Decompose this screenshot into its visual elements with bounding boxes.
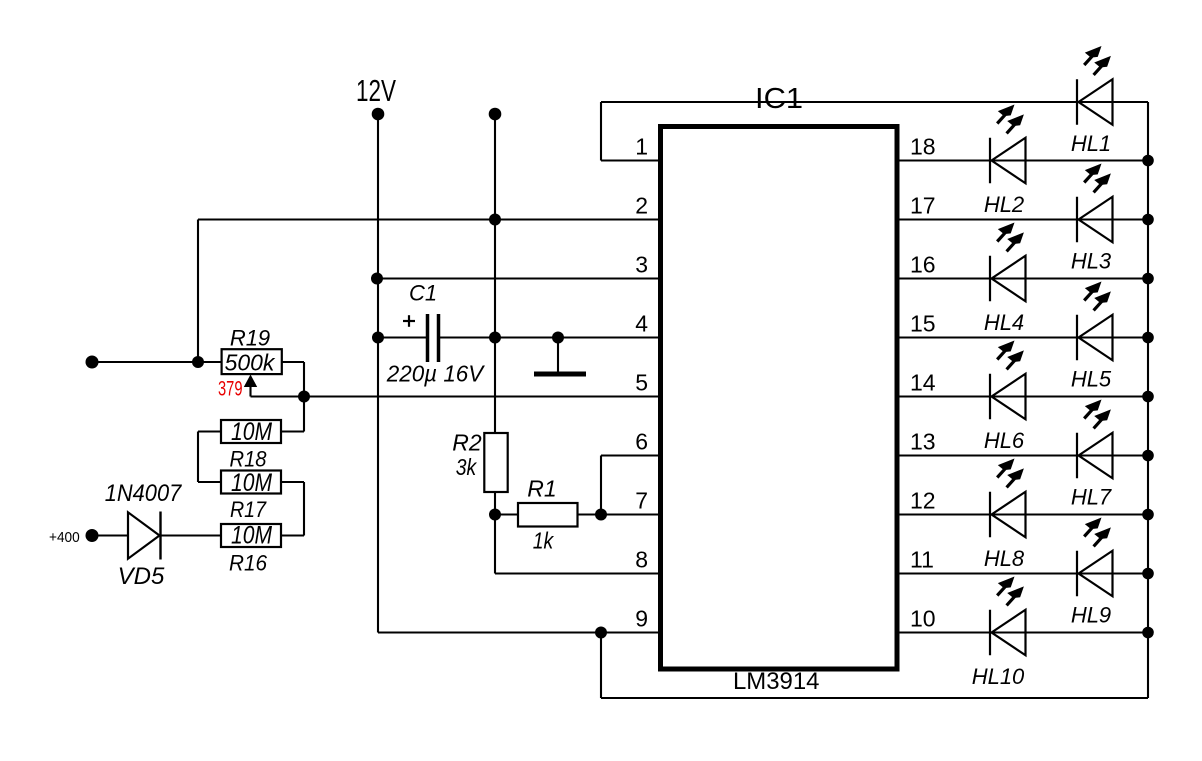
svg-text:HL3: HL3 [1071,249,1112,274]
svg-text:6: 6 [635,429,648,455]
wire pin 5 horizontal [251,395,662,397]
diode VD5 triangle [128,512,160,558]
svg-text:16: 16 [910,252,936,278]
junction at (378,337.5) [372,332,384,344]
svg-text:17: 17 [910,193,936,219]
resistor R1 body [518,503,578,527]
svg-text:1N4007: 1N4007 [105,480,183,507]
svg-text:HL9: HL9 [1071,603,1111,628]
wire R2 bottom to node [494,492,496,515]
svg-text:C1: C1 [409,281,437,306]
wire pin 4 right segment [440,336,661,338]
wire R17 right lead [281,481,304,483]
svg-text:14: 14 [910,370,936,396]
wire 12V rail vertical [377,114,379,633]
wire bottom horizontal [601,697,1148,699]
svg-text:R17: R17 [230,497,267,522]
junction at (601,632.5) [595,627,607,639]
wire pin 9 horizontal [378,631,661,633]
wire R17-R16 right vertical [303,482,305,536]
ground symbol bar [534,372,586,377]
wire pin9-to-bottom vertical [600,633,602,699]
wire R19 wiper stem [249,387,251,397]
resistor R16 body [221,524,281,547]
svg-text:1: 1 [635,134,648,160]
wire pin 16 to LED row [897,277,1148,279]
wire pin 2 drop vertical [197,220,199,363]
LED HL7 [1077,401,1113,479]
svg-text:IC1: IC1 [755,83,803,115]
capacitor C1 left plate [426,314,430,362]
wire R18 right lead [281,430,304,432]
wire pin 6 stub [601,454,661,456]
wire pin 17 to LED row [897,218,1148,220]
junction right rail at y=160.5 [1142,155,1154,167]
wire pin 8 drop vertical [494,515,496,574]
wire node to R18 drop [303,397,305,432]
wire pin 14 to LED row [897,395,1148,397]
wire pin 3 horizontal [377,277,661,279]
LED HL2 [990,106,1026,184]
LED HL10 [990,578,1026,656]
node input terminal dot (+400) [86,529,99,542]
wire input to R19 [92,361,222,363]
junction right rail at y=396.5 [1142,391,1154,403]
diode VD5 cathode bar [159,512,161,560]
resistor R2 body [484,433,507,492]
LED HL8 [990,460,1026,538]
potentiometer R19 wiper arrow [244,375,257,388]
svg-text:5: 5 [635,370,648,396]
svg-text:R1: R1 [527,476,556,502]
svg-text:HL6: HL6 [984,428,1025,453]
svg-text:10M: 10M [231,418,272,446]
junction at (601,514.5) [595,509,607,521]
wire R18 left lead [198,430,221,432]
svg-text:HL4: HL4 [984,310,1024,335]
svg-text:10: 10 [910,606,936,632]
wire pin 11 to LED row [897,572,1148,574]
junction right rail at y=455.5 [1142,450,1154,462]
resistor R17 body [221,471,281,494]
wire R1 right to pin 7 [578,513,662,515]
LED HL9 [1077,519,1113,597]
svg-text:HL7: HL7 [1071,485,1112,510]
LED HL1 [1077,47,1113,125]
svg-text:9: 9 [635,606,648,632]
junction at (495,514.5) [489,509,501,521]
wire R16 right lead [281,534,304,536]
svg-text:HL10: HL10 [972,664,1025,689]
wire pin 6 drop vertical [600,456,602,515]
junction right rail at y=573.5 [1142,568,1154,580]
junction at (198,362) [192,356,204,368]
LED HL3 [1077,165,1113,243]
svg-text:3k: 3k [456,454,478,480]
svg-text:2: 2 [635,193,648,219]
wire pin 18 to LED row [897,159,1148,161]
ground symbol stem [557,338,559,372]
svg-text:13: 13 [910,429,936,455]
svg-text:11: 11 [910,547,934,573]
svg-text:10M: 10M [231,469,272,497]
svg-text:R19: R19 [230,326,270,351]
svg-text:LM3914: LM3914 [733,668,820,695]
wire R16 left lead to diode [161,534,221,536]
wire right rail vertical [1147,102,1149,698]
wire pin 1 stub [601,159,661,161]
svg-text:220µ 16V: 220µ 16V [386,361,486,387]
resistor R18 body [221,420,281,443]
wire top horizontal [601,101,1148,103]
wire rail to R2 top [494,338,496,434]
capacitor C1 plus sign [403,320,415,322]
svg-text:1k: 1k [533,528,555,554]
node input terminal dot (to R19) [86,356,99,369]
wire pin 15 to LED row [897,336,1148,338]
potentiometer R19 body [222,349,282,374]
svg-text:7: 7 [635,488,648,514]
node second rail terminal dot [489,108,502,121]
junction at (304,396.5) [298,391,310,403]
svg-text:HL8: HL8 [984,546,1025,571]
wire pin 13 to LED row [897,454,1148,456]
LED HL5 [1077,283,1113,361]
svg-text:HL5: HL5 [1071,367,1112,392]
junction right rail at y=219.5 [1142,214,1154,226]
junction at (495,219.5) [489,214,501,226]
svg-text:15: 15 [910,311,936,337]
junction right rail at y=337.5 [1142,332,1154,344]
junction right rail at y=514.5 [1142,509,1154,521]
wire pin 2 horizontal [198,218,661,220]
wire R19 right drop [303,362,305,397]
capacitor C1 right plate [437,314,441,362]
svg-text:HL1: HL1 [1071,131,1111,156]
wire R19 right lead [282,361,304,363]
wire R18-R17 left vertical [197,432,199,483]
svg-text:12V: 12V [356,73,396,108]
junction right rail at y=278.5 [1142,273,1154,285]
svg-text:4: 4 [635,311,648,337]
junction at (495,337.5) [489,332,501,344]
svg-text:R16: R16 [229,551,268,576]
svg-text:R18: R18 [230,447,268,472]
svg-text:10M: 10M [231,522,272,550]
LED HL6 [990,342,1026,420]
svg-text:18: 18 [910,134,936,160]
wire node to R1 left [495,513,518,515]
wire pin 4 left segment [378,336,426,338]
svg-text:12: 12 [910,488,936,514]
svg-text:500k: 500k [225,350,276,376]
wire pin 8 horizontal [495,572,661,574]
svg-text:379: 379 [218,378,243,401]
svg-text:HL2: HL2 [984,192,1024,217]
svg-text:VD5: VD5 [118,563,165,590]
op-amp IC1 LM3914 body [661,127,898,670]
wire input to diode VD5 [92,534,128,536]
junction right rail at y=632.5 [1142,627,1154,639]
node 12V terminal dot [372,108,385,121]
wire second supply rail vertical [494,114,496,338]
svg-text:R2: R2 [452,430,482,456]
LED HL4 [990,224,1026,302]
junction at (377,278.5) [371,273,383,285]
svg-text:8: 8 [635,547,648,573]
svg-text:3: 3 [635,252,648,278]
wire pin 1 vertical [600,102,602,161]
wire R17 left lead [198,481,221,483]
wire pin 12 to LED row [897,513,1148,515]
wire pin 10 to LED row [897,631,1148,633]
svg-text:+400: +400 [49,529,80,546]
junction at (558,337.5) [552,332,564,344]
